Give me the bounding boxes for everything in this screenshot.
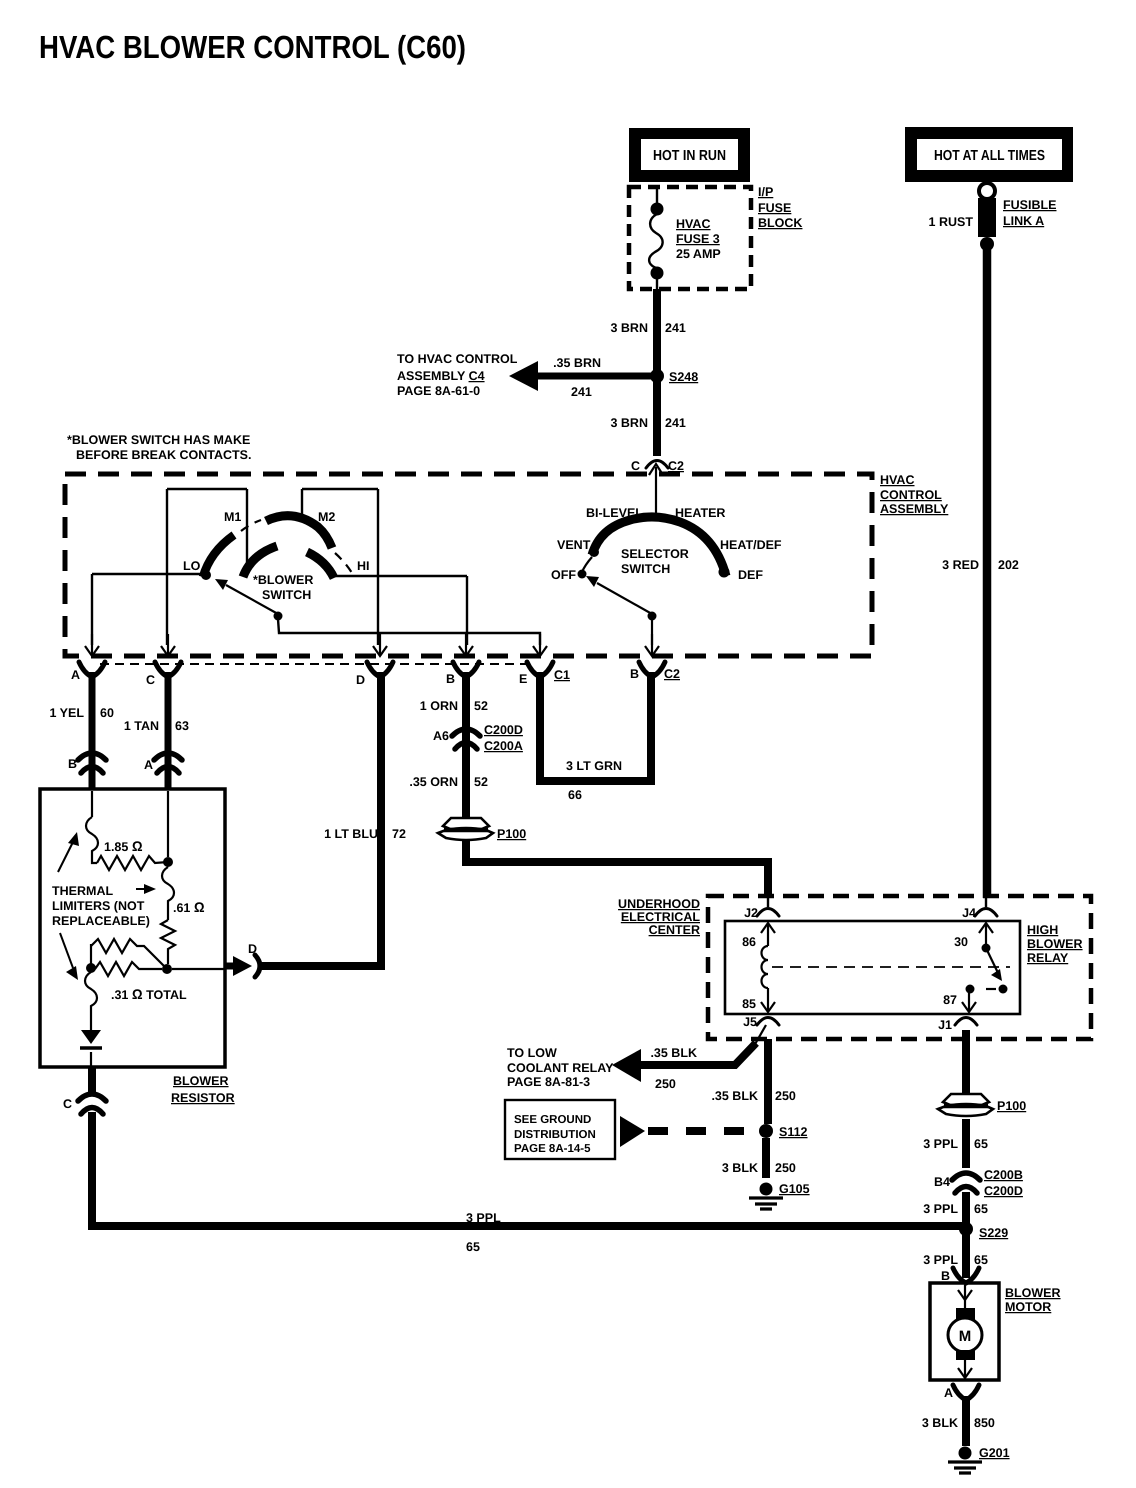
svg-text:C1: C1: [554, 668, 570, 682]
svg-text:65: 65: [974, 1202, 988, 1216]
svg-text:LIMITERS (NOT: LIMITERS (NOT: [52, 899, 145, 913]
svg-text:C: C: [146, 673, 155, 687]
svg-text:3 PPL: 3 PPL: [466, 1211, 501, 1225]
svg-text:1 RUST: 1 RUST: [929, 215, 974, 229]
svg-text:85: 85: [742, 997, 756, 1011]
svg-text:3 BLK: 3 BLK: [722, 1161, 758, 1175]
svg-text:S112: S112: [779, 1125, 808, 1139]
svg-text:HEAT/DEF: HEAT/DEF: [720, 538, 782, 552]
svg-text:HOT IN RUN: HOT IN RUN: [653, 148, 726, 164]
svg-text:I/P: I/P: [758, 185, 773, 199]
svg-text:CENTER: CENTER: [649, 923, 700, 937]
svg-text:SELECTOR: SELECTOR: [621, 547, 689, 561]
svg-text:202: 202: [998, 558, 1019, 572]
svg-text:3 LT GRN: 3 LT GRN: [566, 759, 622, 773]
svg-text:C: C: [63, 1097, 72, 1111]
svg-text:65: 65: [466, 1240, 480, 1254]
svg-text:THERMAL: THERMAL: [52, 884, 113, 898]
svg-text:J1: J1: [938, 1018, 952, 1032]
svg-text:3 RED: 3 RED: [942, 558, 979, 572]
svg-text:J4: J4: [962, 906, 976, 920]
svg-text:HVAC BLOWER CONTROL (C60): HVAC BLOWER CONTROL (C60): [39, 29, 466, 65]
svg-text:72: 72: [392, 827, 406, 841]
svg-text:TO LOW: TO LOW: [507, 1046, 557, 1060]
svg-text:HOT AT ALL TIMES: HOT AT ALL TIMES: [934, 148, 1045, 164]
svg-text:HVAC: HVAC: [880, 473, 915, 487]
svg-text:B: B: [446, 672, 455, 686]
svg-text:S248: S248: [669, 370, 698, 384]
svg-text:B4: B4: [934, 1175, 950, 1189]
svg-text:52: 52: [474, 699, 488, 713]
svg-text:A: A: [144, 758, 153, 772]
svg-text:DISTRIBUTION: DISTRIBUTION: [514, 1129, 596, 1141]
svg-text:J5: J5: [743, 1015, 757, 1029]
svg-text:P100: P100: [997, 1099, 1026, 1113]
svg-text:BLOWER: BLOWER: [173, 1074, 229, 1088]
svg-text:A: A: [944, 1386, 953, 1400]
svg-text:.35 BLK: .35 BLK: [650, 1046, 697, 1060]
svg-text:ASSEMBLY: ASSEMBLY: [880, 502, 949, 516]
svg-text:BLOCK: BLOCK: [758, 216, 802, 230]
svg-text:3 BRN: 3 BRN: [610, 321, 648, 335]
svg-text:.31 Ω TOTAL: .31 Ω TOTAL: [111, 986, 187, 1002]
svg-text:1.85 Ω: 1.85 Ω: [104, 838, 143, 854]
svg-text:M1: M1: [224, 510, 241, 524]
svg-text:52: 52: [474, 775, 488, 789]
svg-text:BLOWER: BLOWER: [1027, 937, 1083, 951]
svg-text:HI: HI: [357, 559, 370, 573]
svg-text:M: M: [959, 1328, 972, 1345]
svg-text:CONTROL: CONTROL: [880, 488, 942, 502]
svg-text:G105: G105: [779, 1182, 810, 1196]
svg-text:MOTOR: MOTOR: [1005, 1300, 1051, 1314]
svg-text:COOLANT RELAY: COOLANT RELAY: [507, 1061, 614, 1075]
svg-text:BEFORE BREAK CONTACTS.: BEFORE BREAK CONTACTS.: [76, 448, 251, 462]
svg-text:.35 ORN: .35 ORN: [409, 775, 458, 789]
svg-text:A6: A6: [433, 729, 449, 743]
svg-text:HEATER: HEATER: [675, 506, 725, 520]
svg-text:BI-LEVEL: BI-LEVEL: [586, 506, 643, 520]
svg-text:1 YEL: 1 YEL: [49, 706, 84, 720]
svg-text:3 PPL: 3 PPL: [923, 1202, 958, 1216]
svg-text:1 ORN: 1 ORN: [420, 699, 458, 713]
svg-text:25 AMP: 25 AMP: [676, 247, 721, 261]
svg-text:B: B: [941, 1269, 950, 1283]
svg-text:C2: C2: [668, 459, 684, 473]
svg-text:RESISTOR: RESISTOR: [171, 1091, 235, 1105]
svg-text:PAGE 8A-61-0: PAGE 8A-61-0: [397, 384, 480, 398]
svg-text:E: E: [519, 672, 527, 686]
svg-text:PAGE 8A-14-5: PAGE 8A-14-5: [514, 1143, 591, 1155]
svg-text:3 BLK: 3 BLK: [922, 1416, 958, 1430]
svg-text:VENT: VENT: [557, 538, 591, 552]
svg-text:SEE GROUND: SEE GROUND: [514, 1114, 591, 1126]
svg-text:.35 BRN: .35 BRN: [553, 356, 601, 370]
svg-text:RELAY: RELAY: [1027, 951, 1069, 965]
svg-text:3 PPL: 3 PPL: [923, 1253, 958, 1267]
svg-text:B: B: [630, 667, 639, 681]
svg-text:241: 241: [665, 321, 686, 335]
svg-text:241: 241: [571, 385, 592, 399]
svg-text:P100: P100: [497, 827, 526, 841]
svg-text:*BLOWER SWITCH HAS MAKE: *BLOWER SWITCH HAS MAKE: [67, 433, 250, 447]
svg-text:C2: C2: [664, 667, 680, 681]
svg-text:DEF: DEF: [738, 568, 763, 582]
svg-text:30: 30: [954, 935, 968, 949]
svg-text:SWITCH: SWITCH: [621, 562, 670, 576]
svg-text:.35 BLK: .35 BLK: [711, 1089, 758, 1103]
svg-text:D: D: [356, 673, 365, 687]
svg-text:SWITCH: SWITCH: [262, 588, 311, 602]
svg-text:HVAC: HVAC: [676, 217, 711, 231]
svg-text:PAGE 8A-81-3: PAGE 8A-81-3: [507, 1075, 590, 1089]
svg-text:ELECTRICAL: ELECTRICAL: [621, 910, 701, 924]
svg-text:OFF: OFF: [551, 568, 576, 582]
svg-text:66: 66: [568, 788, 582, 802]
svg-text:1 LT BLU: 1 LT BLU: [324, 827, 378, 841]
svg-text:C200D: C200D: [484, 723, 523, 737]
svg-text:C: C: [631, 459, 640, 473]
svg-text:A: A: [71, 668, 80, 682]
svg-text:87: 87: [943, 993, 957, 1007]
svg-text:FUSE 3: FUSE 3: [676, 232, 720, 246]
svg-text:3 PPL: 3 PPL: [923, 1137, 958, 1151]
svg-text:UNDERHOOD: UNDERHOOD: [618, 897, 700, 911]
svg-text:3 BRN: 3 BRN: [610, 416, 648, 430]
svg-text:1 TAN: 1 TAN: [124, 719, 159, 733]
svg-text:FUSE: FUSE: [758, 201, 791, 215]
svg-text:B: B: [68, 757, 77, 771]
svg-text:C200A: C200A: [484, 739, 523, 753]
svg-text:850: 850: [974, 1416, 995, 1430]
svg-text:C200B: C200B: [984, 1168, 1023, 1182]
svg-text:250: 250: [775, 1161, 796, 1175]
svg-text:63: 63: [175, 719, 189, 733]
svg-text:FUSIBLE: FUSIBLE: [1003, 198, 1056, 212]
svg-text:65: 65: [974, 1253, 988, 1267]
svg-text:86: 86: [742, 935, 756, 949]
svg-text:REPLACEABLE): REPLACEABLE): [52, 914, 150, 928]
svg-text:LO: LO: [183, 559, 201, 573]
svg-text:250: 250: [775, 1089, 796, 1103]
svg-text:*BLOWER: *BLOWER: [253, 573, 313, 587]
svg-text:60: 60: [100, 706, 114, 720]
svg-text:HIGH: HIGH: [1027, 923, 1058, 937]
svg-text:LINK A: LINK A: [1003, 214, 1044, 228]
svg-text:.61 Ω: .61 Ω: [173, 899, 205, 915]
svg-text:241: 241: [665, 416, 686, 430]
svg-text:ASSEMBLY C4: ASSEMBLY C4: [397, 369, 485, 383]
svg-text:65: 65: [974, 1137, 988, 1151]
svg-text:G201: G201: [979, 1446, 1010, 1460]
svg-text:S229: S229: [979, 1226, 1008, 1240]
svg-text:J2: J2: [744, 906, 758, 920]
svg-text:TO HVAC CONTROL: TO HVAC CONTROL: [397, 352, 518, 366]
svg-text:BLOWER: BLOWER: [1005, 1286, 1061, 1300]
svg-text:250: 250: [655, 1077, 676, 1091]
svg-text:M2: M2: [318, 510, 335, 524]
svg-text:C200D: C200D: [984, 1184, 1023, 1198]
svg-text:D: D: [248, 942, 257, 956]
